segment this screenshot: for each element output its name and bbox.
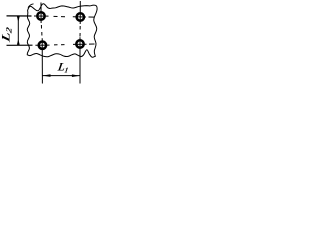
arrowhead L1 right — [72, 74, 80, 77]
hole top-right — [77, 13, 84, 20]
top-left corner freehand flick stroke — [28, 4, 33, 8]
dimension line L1 (horizontal) — [42, 75, 80, 77]
center line row top (through upper holes, extends left as extension line for L2) — [7, 16, 95, 17]
hole top-left — [37, 12, 44, 19]
center line column left (through left holes, extends down as extension line for L1) — [41, 3, 42, 84]
hole bottom-right — [76, 40, 83, 47]
arrowhead L2 bottom — [17, 39, 20, 45]
arrowhead L2 top — [17, 16, 20, 22]
svg-text:L2: L2 — [0, 25, 14, 45]
dimension line L2 (vertical) — [17, 16, 19, 45]
hole bottom-left — [39, 42, 46, 49]
plate outline (broken-out fragment, freehand wavy border) — [27, 4, 97, 58]
center line column right (through right holes, extends down as extension line for L1) — [79, 1, 81, 84]
center line row bottom (through lower holes, extension line for L2) — [7, 44, 95, 45]
svg-text:L1: L1 — [56, 61, 70, 75]
arrowhead L1 left — [43, 74, 51, 77]
